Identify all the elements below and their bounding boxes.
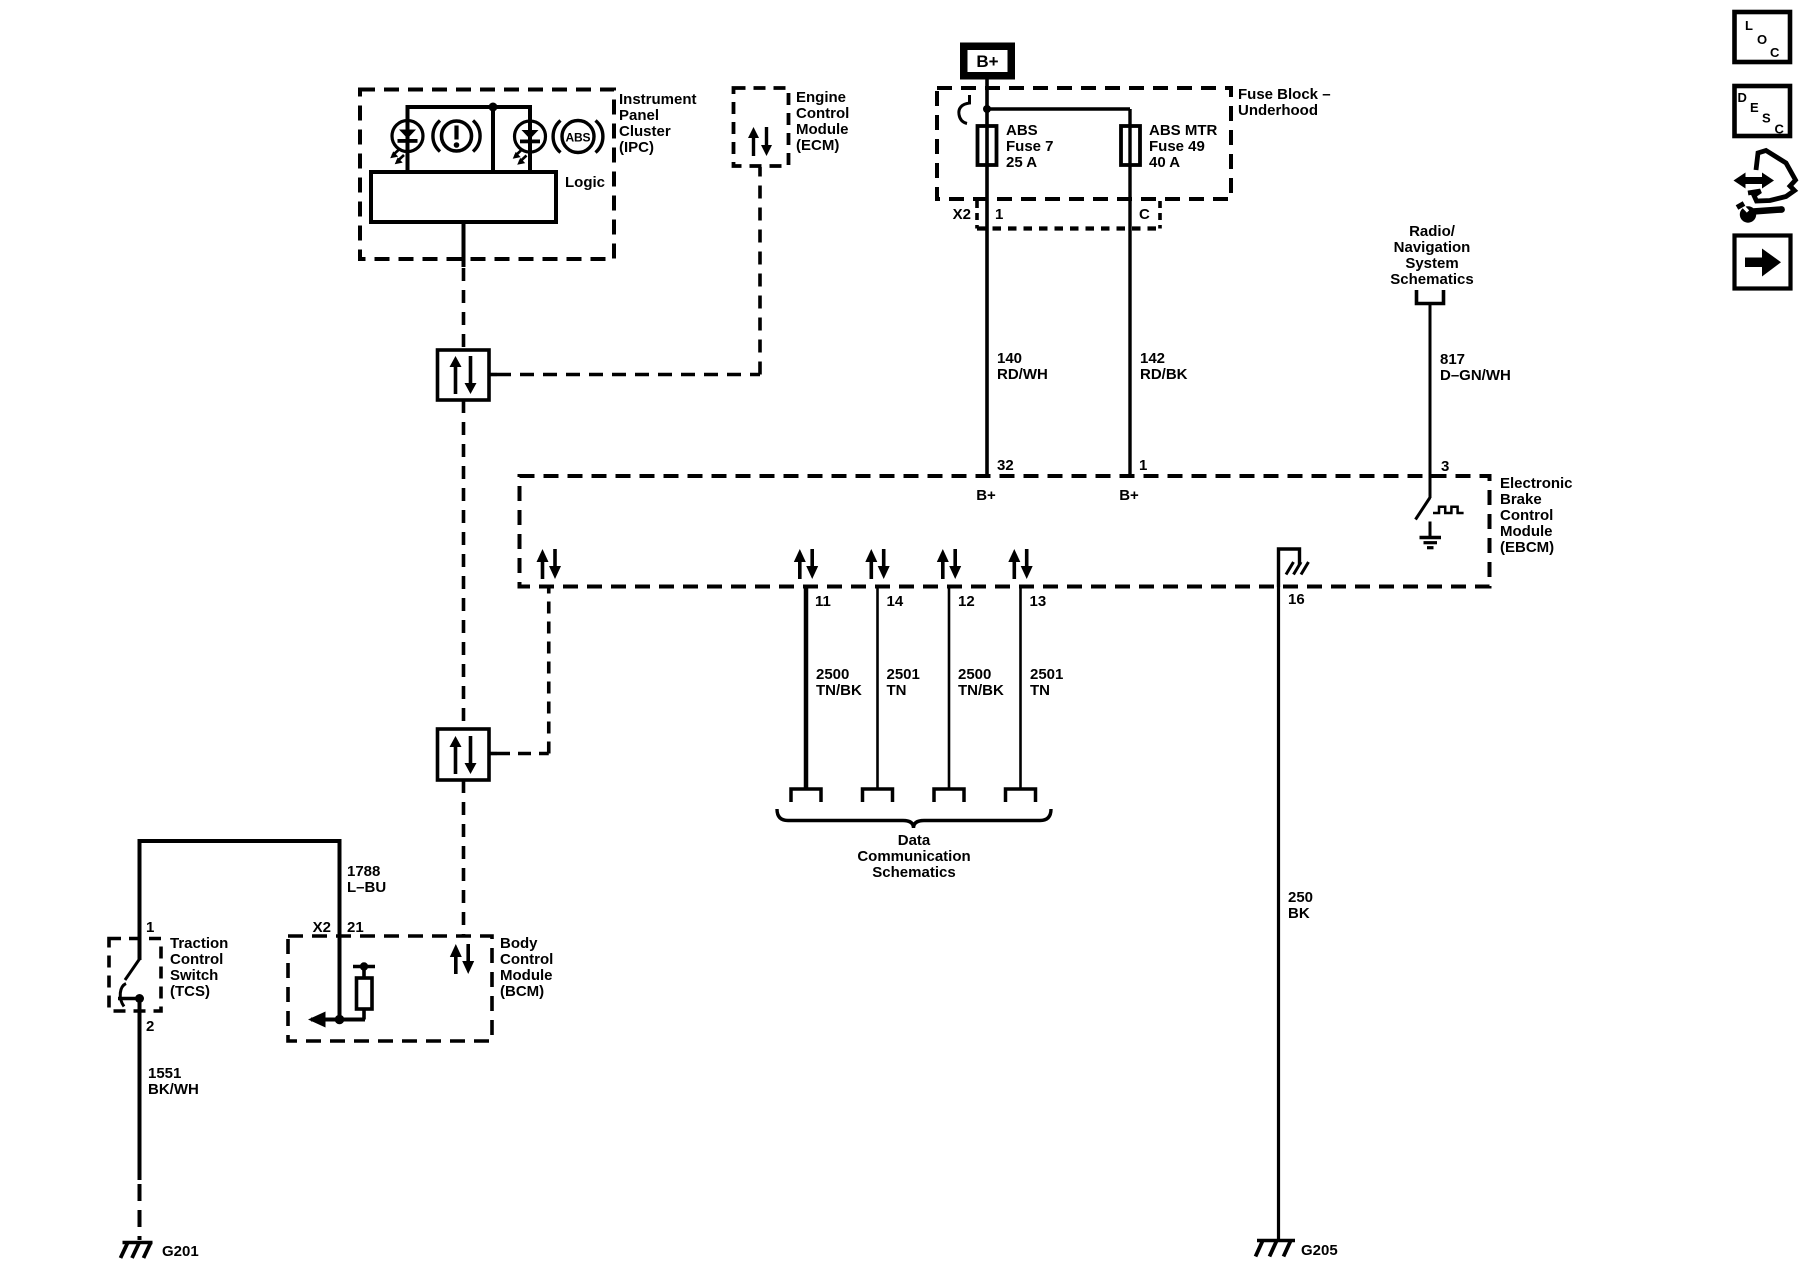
EBCM serial data arrows pin 13 [1008,549,1032,579]
brace data communication [777,809,1051,828]
ground G205 [1256,1240,1338,1259]
serial data link symbol U1 [438,350,490,400]
svg-text:Panel: Panel [619,107,659,124]
svg-text:40 A: 40 A [1149,154,1180,171]
wire 2501 TN (pin 14) [876,587,879,789]
svg-text:12: 12 [958,593,975,610]
svg-text:ABS: ABS [566,131,591,145]
internal chassis ground at pin 16 [1279,549,1309,587]
label Data Communication Schematics [857,832,970,881]
svg-text:2501: 2501 [887,666,920,683]
svg-text:Fuse 7: Fuse 7 [1006,138,1054,155]
wire 2500 TN/BK (pin 11) [804,587,809,789]
terminal pin 12 wire [934,789,964,802]
svg-text:C: C [1770,45,1780,60]
label Fuse Block Underhood [1238,86,1331,119]
switch TCS blade [118,939,144,1007]
resistor BCM pull-up [353,962,375,1019]
wire through TCS indicator LED [406,105,410,174]
svg-text:817: 817 [1440,351,1465,368]
label wire 140 RD/WH [997,350,1048,383]
svg-text:250: 250 [1288,889,1313,906]
wire 817 D-GN/WH [1429,304,1432,477]
svg-text:BK: BK [1288,905,1310,922]
wire serial link box1 to box2 (dashed) [462,400,466,729]
indicator symbol brake warning (!) [433,121,480,152]
svg-text:B+: B+ [976,487,996,504]
battery feed symbol B+ [960,43,1015,80]
node TCS output junction [135,994,144,1003]
svg-text:Control: Control [500,951,553,968]
svg-text:Control: Control [1500,507,1553,524]
module box: Instrument Panel Cluster (IPC) [360,90,614,260]
svg-text:13: 13 [1030,593,1047,610]
EBCM serial data arrows pin 12 [937,549,961,579]
label wire 1788 L-BU [347,863,386,896]
wire BCM internal signal [311,1018,365,1022]
wire serial link box2 to EBCM (dashed) [489,752,497,756]
svg-text:1: 1 [1139,457,1147,474]
svg-text:TN/BK: TN/BK [816,682,862,699]
svg-text:Schematics: Schematics [872,864,955,881]
terminal pin 11 wire [791,789,821,802]
module box: Engine Control Module (ECM) [734,88,789,166]
svg-text:2500: 2500 [816,666,849,683]
off-page connector bracket [1417,290,1444,304]
svg-text:RD/WH: RD/WH [997,366,1048,383]
svg-text:Electronic: Electronic [1500,475,1573,492]
svg-text:11: 11 [815,593,831,610]
svg-text:1551: 1551 [148,1065,181,1082]
label ECM [796,89,849,154]
label wire 817 D-GN/WH [1440,351,1511,384]
connector X2 of fuse block [977,201,1160,229]
svg-text:Navigation: Navigation [1394,239,1471,256]
svg-text:TN: TN [887,682,907,699]
label wire 250 BK [1288,889,1313,922]
svg-text:2501: 2501 [1030,666,1063,683]
svg-text:Body: Body [500,935,538,952]
svg-text:21: 21 [347,919,364,936]
svg-text:TN: TN [1030,682,1050,699]
wire 1788 L-BU vertical to BCM [338,839,342,1020]
ECM serial data arrows [748,127,772,156]
svg-text:B+: B+ [1119,487,1139,504]
BCM serial data arrows [450,944,474,974]
wire 140 RD/WH battery feed [985,79,989,476]
svg-text:Traction: Traction [170,935,228,952]
ground symbol internal at pin 3 [1420,522,1442,548]
wire 142 RD/BK feed [1128,109,1131,476]
svg-text:D–GN/WH: D–GN/WH [1440,367,1511,384]
svg-text:C: C [1139,206,1150,223]
icon DESC [1735,86,1791,137]
svg-text:BK/WH: BK/WH [148,1081,199,1098]
indicator symbol (ABS) [553,121,603,153]
svg-text:Brake: Brake [1500,491,1542,508]
arrow BCM internal signal [308,1012,326,1028]
svg-text:B+: B+ [976,52,998,71]
svg-text:Instrument: Instrument [619,91,697,108]
label BCM [500,935,553,1000]
svg-text:14: 14 [887,593,904,610]
label wire 1551 BK/WH [148,1065,199,1098]
wire 1788 L-BU horizontal [138,839,340,843]
module box: Traction Control Switch (TCS) [109,939,161,1012]
svg-text:System: System [1405,255,1458,272]
wire 2500 TN/BK (pin 12) [948,587,951,789]
svg-text:Control: Control [170,951,223,968]
terminal pin 14 wire [863,789,893,802]
svg-text:(EBCM): (EBCM) [1500,539,1554,556]
svg-text:TN/BK: TN/BK [958,682,1004,699]
fuse ABS Fuse 7 25A [978,126,997,165]
wire 1551 BK/WH [138,999,142,1181]
svg-text:Fuse 49: Fuse 49 [1149,138,1205,155]
svg-text:1: 1 [995,206,1003,223]
svg-text:G205: G205 [1301,1242,1338,1259]
svg-text:Module: Module [1500,523,1553,540]
svg-text:Switch: Switch [170,967,218,984]
svg-text:142: 142 [1140,350,1165,367]
svg-text:O: O [1757,32,1767,47]
node fuse rail junction [983,105,991,113]
svg-text:Fuse Block –: Fuse Block – [1238,86,1331,103]
svg-text:1788: 1788 [347,863,380,880]
EBCM serial data arrows pin 14 [865,549,889,579]
wire through ABS indicator LED [528,105,532,174]
icon LOC [1735,12,1791,62]
label IPC [619,91,697,156]
svg-text:140: 140 [997,350,1022,367]
svg-text:Schematics: Schematics [1390,271,1473,288]
wire TCS pin1 feed [138,839,142,939]
wire serial link box2 to BCM (dashed) [462,780,466,936]
svg-text:(IPC): (IPC) [619,139,654,156]
label TCS [170,935,228,1000]
svg-text:S: S [1762,111,1771,126]
terminal pin 13 wire [1006,789,1036,802]
svg-text:Module: Module [796,121,849,138]
fuse ABS MTR Fuse 49 40A [1121,126,1140,165]
svg-text:Data: Data [898,832,931,849]
wire 2501 TN (pin 13) [1019,587,1022,789]
svg-text:3: 3 [1441,458,1449,475]
svg-text:25 A: 25 A [1006,154,1037,171]
svg-text:(TCS): (TCS) [170,983,210,1000]
svg-text:(ECM): (ECM) [796,137,839,154]
svg-text:Underhood: Underhood [1238,102,1318,119]
svg-text:X2: X2 [313,919,331,936]
svg-text:Module: Module [500,967,553,984]
node IPC bus junction [489,103,498,112]
serial data link symbol U2 [438,729,490,780]
wire IPC lamp feed bus [406,105,533,109]
icon diagnostic (arrows, outline, wrench) [1734,151,1796,223]
svg-text:Control: Control [796,105,849,122]
svg-text:Cluster: Cluster [619,123,671,140]
module box: Electronic Brake Control Module (EBCM) [520,476,1490,587]
IPC logic block [371,172,556,222]
svg-text:ABS MTR: ABS MTR [1149,122,1217,139]
svg-text:RD/BK: RD/BK [1140,366,1188,383]
svg-text:2500: 2500 [958,666,991,683]
svg-text:C: C [1775,122,1785,137]
svg-text:X2: X2 [953,206,971,223]
svg-text:Radio/: Radio/ [1409,223,1456,240]
svg-text:Communication: Communication [857,848,970,865]
indicator LED DS1 (TCS lamp) [390,121,423,165]
svg-text:Logic: Logic [565,174,605,191]
svg-text:E: E [1750,100,1759,115]
svg-text:G201: G201 [162,1243,199,1260]
module box: Body Control Module (BCM) [288,936,492,1041]
indicator LED DS2 (ABS lamp) [513,121,546,165]
svg-text:L: L [1745,18,1753,33]
svg-text:Engine: Engine [796,89,846,106]
EBCM serial data arrows left [537,549,562,579]
svg-text:ABS: ABS [1006,122,1038,139]
label wire 142 RD/BK [1140,350,1188,383]
wire serial data IPC to link connector (dashed) [462,268,466,350]
label Radio/Navigation reference [1390,223,1473,288]
EBCM serial data arrows pin 11 [794,549,818,579]
wire serial link to ECM (dashed) [489,373,497,377]
ground G201 [121,1242,199,1260]
node BCM input junction [335,1015,345,1025]
module box: Fuse Block - Underhood [937,88,1231,199]
internal switch at pin 3 [1416,476,1464,520]
icon forward arrow [1735,236,1791,289]
wire logic output [462,222,466,267]
svg-text:2: 2 [146,1018,154,1035]
svg-text:L–BU: L–BU [347,879,386,896]
svg-text:32: 32 [997,457,1014,474]
label EBCM [1500,475,1573,556]
wire junction to logic [491,107,495,174]
bus clip symbol [959,95,970,124]
wire 250 BK ground lead [1277,587,1280,1240]
svg-text:1: 1 [146,919,154,936]
svg-text:16: 16 [1288,591,1305,608]
svg-text:(BCM): (BCM) [500,983,544,1000]
svg-text:D: D [1738,90,1747,105]
wire fuse block rail [987,107,1130,110]
